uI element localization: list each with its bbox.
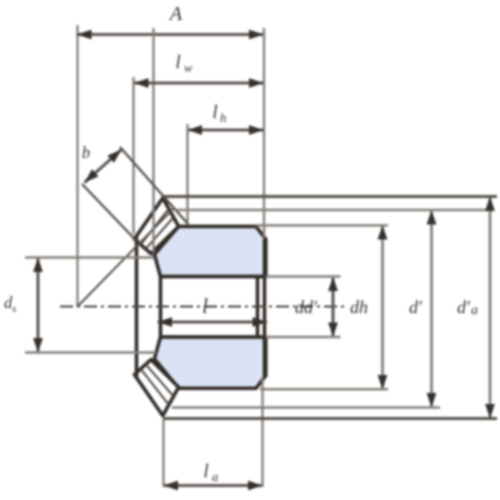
- gear body lower half (blue): [154, 337, 265, 388]
- label d-prime-a: [457, 297, 478, 318]
- svg-text:dd′: dd′: [295, 297, 318, 317]
- extension d-prime bottom: [172, 406, 440, 409]
- label b: [82, 143, 90, 162]
- svg-text:w: w: [184, 61, 193, 75]
- label A: [168, 3, 183, 25]
- dimension line l: [158, 317, 268, 327]
- dimension line ds: [33, 258, 43, 353]
- dimension line d-prime: [427, 210, 437, 408]
- extension line ds top: [25, 256, 154, 258]
- dimension line lh: [188, 125, 264, 135]
- svg-text:s: s: [12, 303, 16, 315]
- svg-text:h: h: [220, 111, 226, 125]
- extension line right (front face up): [263, 28, 265, 238]
- label d d-prime: [295, 297, 318, 317]
- extension line la left: [162, 419, 164, 487]
- centerline (axis): [60, 306, 348, 308]
- svg-text:d′: d′: [457, 297, 471, 317]
- svg-text:l: l: [203, 461, 208, 482]
- dimension line dh: [378, 225, 388, 390]
- extension bore top: [266, 275, 341, 277]
- extension bore bottom: [266, 336, 341, 338]
- extension dh top: [256, 224, 388, 227]
- extension line b inner: [82, 184, 137, 242]
- extension line left of A: [152, 28, 154, 253]
- gear front face: [263, 239, 267, 375]
- svg-text:d′: d′: [409, 297, 423, 317]
- bore top line: [161, 275, 266, 279]
- lower tooth band tooth lines: [141, 364, 174, 404]
- label l: [202, 294, 208, 318]
- dimension line lw: [134, 78, 264, 88]
- dimension line bore d: [328, 277, 338, 338]
- extension line b outer: [120, 147, 188, 224]
- extension line lw left: [132, 77, 134, 234]
- svg-text:a: a: [471, 303, 478, 318]
- extension dh bottom: [260, 388, 388, 391]
- svg-text:dh: dh: [350, 297, 368, 317]
- extension d-prime top: [176, 209, 493, 212]
- svg-text:l: l: [202, 294, 208, 318]
- svg-text:l: l: [175, 52, 180, 73]
- svg-text:b: b: [82, 143, 90, 162]
- label ds: [4, 293, 16, 315]
- dimension line A: [77, 30, 264, 40]
- apex vertical extension line: [76, 25, 78, 307]
- extension d-prime-a top: [164, 195, 497, 198]
- dimension line b: [85, 150, 122, 183]
- svg-text:A: A: [168, 3, 183, 25]
- bore left end face: [159, 277, 163, 338]
- svg-text:l: l: [212, 102, 217, 123]
- lower tooth band outline: [134, 360, 178, 416]
- bore bottom line: [161, 335, 266, 339]
- dimension line d-prime-a: [485, 197, 495, 419]
- extension line ds bottom: [25, 351, 156, 353]
- label d-prime: [409, 297, 423, 317]
- dimension line la: [164, 481, 263, 491]
- label lh: [212, 102, 226, 125]
- upper tooth band tooth lines: [141, 209, 174, 249]
- gear back face line: [135, 236, 139, 378]
- gear body upper half (blue): [154, 226, 265, 276]
- extension line la right: [261, 378, 263, 487]
- bore right end face: [256, 277, 260, 338]
- svg-text:a: a: [212, 470, 218, 484]
- label la: [203, 461, 218, 484]
- label lw: [175, 52, 193, 75]
- extension d-prime-a bottom: [163, 417, 497, 420]
- upper tooth band outline: [134, 198, 178, 254]
- label dh: [350, 297, 368, 317]
- pitch cone line: [78, 209, 174, 307]
- extension line lh left: [186, 124, 188, 225]
